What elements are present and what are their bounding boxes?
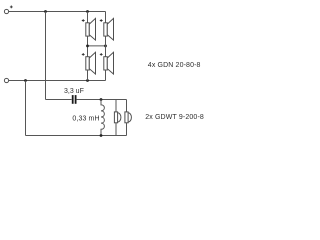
speaker LS4 bottom-right GDN: [100, 52, 114, 74]
terminal + input: [4, 9, 8, 13]
speaker LS3 bottom-left GDN: [82, 52, 96, 74]
wire capacitor left lead: [46, 99, 72, 101]
node inductor top: [100, 98, 103, 101]
speaker LS2 top-right GDN: [100, 18, 114, 40]
wire bottom bus: [26, 135, 127, 137]
capacitor C1 3,3 uF: [72, 95, 77, 104]
node tweeter branch tap: [44, 10, 47, 13]
inductor L1 0,33 mH: [101, 100, 104, 136]
wire right column lower lead: [105, 70, 107, 81]
svg-text:0,33 mH: 0,33 mH: [72, 116, 99, 123]
wire left column lower lead: [87, 70, 89, 81]
node minus drop: [24, 79, 27, 82]
wire tweeter feed vertical: [45, 12, 47, 100]
node left speaker column top: [86, 10, 89, 13]
tweeter TW2 GDWT: [125, 112, 132, 123]
wire right column upper lead: [105, 12, 107, 23]
svg-text:2x GDWT 9-200-8: 2x GDWT 9-200-8: [145, 114, 204, 121]
wire left column middle lead: [87, 36, 89, 57]
wire minus drop vertical: [25, 81, 27, 136]
wire capacitor right lead: [77, 99, 127, 101]
svg-text:3,3 uF: 3,3 uF: [64, 88, 84, 95]
svg-text:4x GDN 20-80-8: 4x GDN 20-80-8: [148, 62, 201, 69]
wire tweeter right upper lead: [126, 100, 128, 112]
tweeter TW1 GDWT: [114, 112, 121, 123]
node left speaker column bottom: [86, 79, 89, 82]
wire left column upper lead: [87, 12, 89, 23]
terminal - input: [4, 78, 8, 82]
node rung left: [86, 45, 89, 48]
speaker LS1 top-left GDN: [82, 18, 96, 40]
wire tweeter right lower lead: [126, 123, 128, 136]
node rung right: [104, 45, 107, 48]
wire right column middle lead: [105, 36, 107, 57]
wire tweeter left upper lead: [115, 100, 117, 112]
wire top bus: [9, 11, 106, 13]
plus input polarity mark: [10, 6, 13, 9]
wire tweeter left lower lead: [115, 123, 117, 136]
wire middle rung: [88, 45, 106, 47]
node inductor bottom: [100, 134, 103, 137]
wire minus bus: [9, 80, 106, 82]
